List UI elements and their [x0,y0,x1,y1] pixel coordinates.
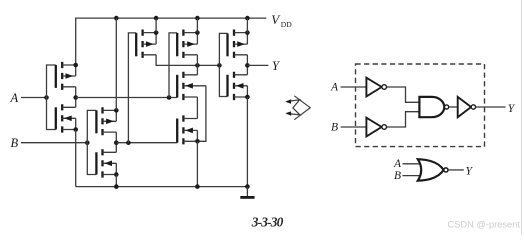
inverter G1 [366,78,381,97]
ground [246,187,248,197]
transistor Pleft channel [141,30,143,58]
transistor out-inv PMOS gate bar [226,33,228,56]
transistor out-inv PMOS arrow [237,41,245,47]
inverter G2 bubble [382,125,387,130]
transistor out-inv PMOS channel [233,30,235,58]
node B gate junction [85,140,90,145]
wire Bbar line [116,142,177,144]
transistor N1 channel [182,72,184,100]
node A-inv NMOS source [73,127,78,132]
transistor B-inv PMOS gate bar [95,110,97,133]
transistor Pmid stubs [183,33,197,55]
wire Bbar riser to Pleft gate [128,33,136,143]
svg-text:A: A [330,82,339,94]
node ground Binv [114,184,119,189]
wire gate input B [341,126,367,128]
node VDD-Pmid [195,16,200,21]
transistor Pleft stubs [143,33,157,55]
node VDD-Pleft [154,16,159,21]
wire Pleft VDD stub [155,18,157,32]
wire input B [21,142,87,144]
transistor A-inv NMOS gate bar [55,107,57,129]
wire ground rail [76,186,248,188]
transistor B-inv NMOS stubs [103,152,117,174]
node N2 source [195,139,200,144]
wire B-inv output [115,132,117,152]
transistor N2 channel [182,115,184,144]
wire G2 to NAND [387,112,420,127]
wire out-inv source to ground [246,97,248,187]
wire A-inv output [75,87,77,108]
transistor A-inv PMOS stubs [62,65,75,87]
wire N1 source to N2 drain [196,97,198,119]
wire gate input A [341,86,367,88]
svg-text:A: A [10,91,19,105]
node ground rail end [245,184,250,189]
node Pleft source [154,30,159,35]
node A gate junction [44,95,49,100]
node B-inv output [114,140,119,145]
wire G1 to NAND [387,87,420,102]
transistor out-inv NMOS stubs [234,75,247,97]
wire N2 source to ground [196,141,198,186]
label VDD [271,12,292,29]
nand G3 bubble [445,105,449,109]
transistor B-inv NMOS gate bar [95,152,97,174]
transistor A-inv NMOS stubs [62,107,75,129]
nor gate [418,159,444,181]
wire input A [21,97,47,99]
wire N1 bulk to N2 source [197,86,206,142]
wire A-inv source to ground [75,130,77,187]
ground bar [240,196,254,199]
wire Pmid drain / N1 drain [196,55,198,75]
transistor A-inv NMOS channel [61,104,63,132]
transistor Pleft gate bar [135,33,137,56]
dashed box [356,64,485,147]
transistor A-inv PMOS arrow [66,73,74,79]
wire NOR input A [403,163,422,165]
svg-text:DD: DD [281,20,292,29]
transistor B-inv NMOS arrow [104,161,112,167]
transistor B-inv PMOS arrow [106,119,114,125]
wire NOR input B [403,175,422,177]
transistor A-inv PMOS channel [61,62,63,90]
transistor A-inv PMOS gate bar [55,65,57,88]
transistor Pmid gate bar [176,33,178,56]
wire B-inverter gate [87,110,96,174]
node VDD-Binv [114,16,119,21]
transistor N2 stubs [183,119,197,142]
wire VDD rail [76,18,267,65]
wire Abar line [76,97,178,99]
node out-inv NMOS source [245,95,250,100]
border right edge [521,0,523,235]
node VDD-inv [245,16,250,21]
node NAND output at inverter gate [217,63,222,68]
transistor N2 arrow [185,128,193,134]
node out-inv PMOS source [245,30,250,35]
wire output Y [247,64,268,66]
transistor out-inv PMOS stubs [234,33,247,55]
node output Y [245,63,250,68]
implies symbol inner chevron [286,100,300,115]
node B-inv PMOS source [114,108,119,113]
svg-text:CSDN @-present: CSDN @-present [448,220,521,230]
node Bbar riser junction [126,140,131,145]
svg-text:B: B [11,136,19,150]
transistor out-inv NMOS channel [233,72,235,100]
inverter G4 [458,97,471,117]
node Pmid source [195,30,200,35]
node ground N2 [195,184,200,189]
transistor Pmid arrow [187,41,195,47]
wire NOR output Y [448,169,464,171]
svg-text:B: B [331,122,338,134]
wire output inverter gate [219,33,227,96]
transistor A-inv NMOS arrow [64,116,72,122]
transistor B-inv NMOS channel [101,149,103,177]
wire out-inv drains [246,55,248,75]
node NAND output mid [195,63,200,68]
svg-text:B: B [394,170,401,182]
inverter G2 [366,118,381,137]
transistor B-inv PMOS channel [101,107,103,135]
transistor N2 gate bar [176,119,178,143]
transistor B-inv PMOS stubs [103,110,117,132]
wire A-inverter gate [47,65,56,130]
transistor N1 arrow [185,83,193,89]
transistor Pmid channel [182,30,184,58]
transistor Pleft arrow [146,41,154,47]
inverter G4 bubble [471,105,475,109]
implies symbol outer chevron [294,96,310,120]
wire out-inv VDD stub [246,18,248,32]
nor bubble [444,168,448,172]
node Abar riser junction [167,95,172,100]
wire G3 to G4 [449,106,458,108]
wire B-inv VDD riser [115,18,117,110]
transistor N1 gate bar [176,75,178,98]
wire Pmid VDD stub [196,18,198,32]
wire Abar riser to Pmid gate [169,33,177,98]
node B-inv NMOS source [114,172,119,177]
wire gate output Y [476,106,506,108]
svg-text:A: A [393,158,402,170]
transistor N1 stubs [183,75,206,97]
svg-text:3-3-30: 3-3-30 [251,215,284,230]
wire Pleft drain to NAND node [156,55,219,66]
transistor out-inv NMOS gate bar [226,75,228,97]
implies symbol arrowheads [285,99,291,104]
nand gate G3 [419,97,444,117]
inverter G1 bubble [382,85,387,90]
node A-inv PMOS source [73,63,78,68]
transistor out-inv NMOS arrow [236,83,244,89]
node A-inv output [73,95,78,100]
wire B-inv source to ground [115,175,117,187]
